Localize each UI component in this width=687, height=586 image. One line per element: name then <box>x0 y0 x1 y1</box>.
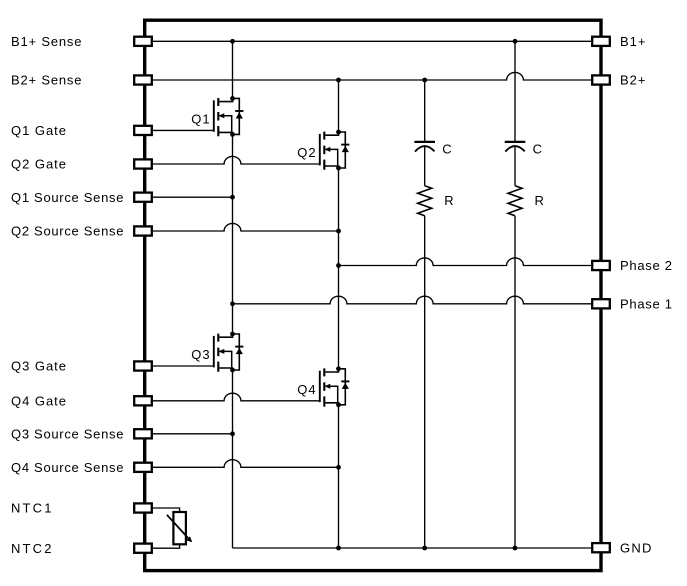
svg-text:Phase 1: Phase 1 <box>620 296 673 311</box>
wire GND rail <box>233 547 602 549</box>
pin Q2 Source Sense <box>134 226 152 235</box>
pin Q1 Gate <box>134 126 152 135</box>
node junction GND / snubber 2 <box>513 546 518 551</box>
wire Q4 source down to GND rail <box>338 405 340 548</box>
pin Q3 Gate <box>134 361 152 370</box>
svg-text:Q2 Source Sense: Q2 Source Sense <box>11 224 124 239</box>
svg-text:Q3: Q3 <box>191 347 210 362</box>
node Q4 drain junction <box>336 366 341 371</box>
transistor Q3 (N-channel MOSFET with body diode) <box>214 334 244 372</box>
wire NTC2 to thermistor <box>145 544 180 548</box>
pin Phase 1 <box>592 299 610 308</box>
svg-text:Phase 2: Phase 2 <box>620 258 673 273</box>
transistor Q2 (N-channel MOSFET with body diode) <box>320 132 350 170</box>
svg-text:Q2 Gate: Q2 Gate <box>11 157 67 172</box>
wire snubber column 2 (B1+ to GND) <box>514 41 516 548</box>
svg-text:Q3 Source Sense: Q3 Source Sense <box>11 426 124 441</box>
svg-text:Q4: Q4 <box>297 382 316 397</box>
node Q1 drain junction <box>230 96 235 101</box>
wire Q2 source / phase 2 column <box>338 168 340 369</box>
svg-text:B1+: B1+ <box>620 34 646 49</box>
svg-text:R: R <box>444 193 454 208</box>
pin B2+ Sense <box>134 75 152 84</box>
wire Q2 Source Sense net with hop <box>145 223 339 231</box>
svg-text:Q1 Gate: Q1 Gate <box>11 123 67 138</box>
svg-text:Q4 Source Sense: Q4 Source Sense <box>11 460 124 475</box>
svg-text:C: C <box>442 142 452 157</box>
thermistor NTC <box>167 512 192 544</box>
wire Q2 Gate net with hop <box>145 156 320 164</box>
pin B1+ <box>592 37 610 46</box>
wire B2+ Sense net with hop over C2 column <box>145 72 601 80</box>
resistor R (phase 1 snubber) <box>418 186 432 216</box>
node Q1 source junction <box>230 132 235 137</box>
svg-text:C: C <box>533 142 543 157</box>
wire Q4 Gate net with hop <box>145 393 320 401</box>
pin B2+ <box>592 75 610 84</box>
pin Q4 Gate <box>134 396 152 405</box>
svg-text:Q4 Gate: Q4 Gate <box>11 393 67 408</box>
node junction Phase 1 / Q1 source column <box>230 301 235 306</box>
pin Q4 Source Sense <box>134 463 152 472</box>
svg-text:GND: GND <box>620 540 652 555</box>
IC package outline <box>145 20 601 570</box>
pin Q3 Source Sense <box>134 429 152 438</box>
node junction B1+ sense / snubber 2 column <box>513 39 518 44</box>
wire B1+ Sense net (top rail) <box>145 40 601 42</box>
node Q3 source junction <box>230 368 235 373</box>
node junction Q3 source sense <box>230 431 235 436</box>
wire NTC1 to thermistor <box>145 508 180 512</box>
node junction GND / snubber 1 <box>422 546 427 551</box>
node junction B2+ sense / Q2 drain column <box>336 78 341 83</box>
wire Q1 Source Sense net <box>145 196 233 198</box>
transistor Q1 (N-channel MOSFET with body diode) <box>214 98 244 136</box>
svg-text:B2+ Sense: B2+ Sense <box>11 73 82 88</box>
wire Q4 Source Sense net with hop <box>145 460 339 468</box>
node Q2 source junction <box>336 166 341 171</box>
wire Q3 Source Sense net <box>145 433 233 435</box>
node junction B2+ sense / snubber 1 column <box>422 78 427 83</box>
transistor Q4 (N-channel MOSFET with body diode) <box>320 368 350 406</box>
node Q4 source junction <box>336 402 341 407</box>
pin NTC1 <box>134 503 152 512</box>
wire Q3 source down to GND rail corner <box>232 370 234 548</box>
pin B1+ Sense <box>134 37 152 46</box>
svg-text:Q3 Gate: Q3 Gate <box>11 359 67 374</box>
wire Q1 source / phase 1 column <box>232 134 234 334</box>
wire snubber column 1 (B2+ to GND) <box>424 80 426 548</box>
wire B2+ sense to Q2 drain <box>338 80 340 132</box>
node Q2 drain junction <box>336 130 341 135</box>
svg-text:Q1: Q1 <box>191 111 210 126</box>
wire B1+ sense to Q1 drain <box>232 41 234 98</box>
resistor R (phase 2 snubber) <box>508 186 522 216</box>
wire Q1 Gate net <box>145 129 214 131</box>
node Q3 drain junction <box>230 332 235 337</box>
node junction GND / Q4 source column <box>336 546 341 551</box>
svg-text:Q1 Source Sense: Q1 Source Sense <box>11 190 124 205</box>
pin Phase 2 <box>592 261 610 270</box>
wire Phase 2 net with hops <box>339 258 602 266</box>
capacitor C (phase 2 snubber) <box>505 142 526 152</box>
svg-text:Q2: Q2 <box>297 145 316 160</box>
pin NTC2 <box>134 544 152 553</box>
node junction Q2 source sense <box>336 229 341 234</box>
pin Q2 Gate <box>134 159 152 168</box>
node junction Phase 2 / Q2 source <box>336 263 341 268</box>
wire Q3 Gate net <box>145 365 214 367</box>
svg-text:R: R <box>535 193 545 208</box>
node junction Q4 source sense <box>336 465 341 470</box>
pin Q1 Source Sense <box>134 193 152 202</box>
node junction B1+ sense / Q1 drain column <box>230 39 235 44</box>
svg-text:B1+ Sense: B1+ Sense <box>11 34 82 49</box>
node junction Q1 source sense <box>230 195 235 200</box>
pin GND <box>592 543 610 552</box>
capacitor C (phase 1 snubber) <box>414 142 435 152</box>
wire Phase 1 net with hops <box>233 296 602 304</box>
svg-text:B2+: B2+ <box>620 73 646 88</box>
